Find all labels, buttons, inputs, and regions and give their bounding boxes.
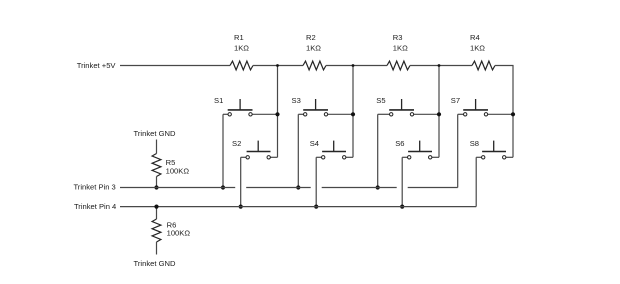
resistor R6 (152, 219, 161, 242)
junction R6 on Pin 4 rail (154, 205, 158, 209)
wire +5V rail segment 4 (410, 65, 472, 67)
svg-text:S3: S3 (292, 96, 301, 105)
junction top rail column 2 (352, 64, 355, 67)
wire +5V rail segment 2 (253, 65, 303, 67)
svg-text:100KΩ: 100KΩ (166, 167, 190, 176)
wire Pin 3 rail segment 2 (246, 187, 311, 189)
junction S3 lead on Pin 3 rail (296, 185, 300, 189)
wire column 1 vertical (277, 66, 279, 158)
junction S2 lead on Pin 4 rail (239, 205, 243, 209)
svg-text:R3: R3 (393, 33, 403, 42)
switch S5 (376, 96, 439, 116)
svg-text:R4: R4 (470, 33, 480, 42)
junction top rail column 1 (276, 64, 279, 67)
svg-text:Trinket +5V: Trinket +5V (77, 61, 117, 70)
svg-text:Trinket GND: Trinket GND (134, 129, 176, 138)
resistor R5 (152, 154, 161, 177)
svg-text:S2: S2 (232, 139, 241, 148)
svg-text:S4: S4 (310, 139, 319, 148)
wire +5V rail segment 5 (495, 65, 514, 67)
svg-text:R1: R1 (234, 33, 244, 42)
svg-text:S5: S5 (376, 96, 385, 105)
wire S7 left lead down to Pin 3 (457, 114, 459, 187)
wire Pin 3 rail segment 3 (322, 187, 397, 189)
wire column 4 vertical (512, 66, 514, 158)
wire Pin 3 rail segment 4 (408, 187, 458, 189)
svg-text:1KΩ: 1KΩ (306, 43, 321, 52)
junction S1 right to column 1 (275, 112, 279, 116)
wire S5 left lead down to Pin 3 (377, 114, 379, 187)
wire S1 left lead down to Pin 3 (222, 114, 224, 187)
wire S8 left lead down to Pin 4 (475, 157, 477, 206)
wire +5V rail segment 1 (120, 65, 230, 67)
wire S3 left lead down to Pin 3 (297, 114, 299, 187)
resistor R3 (387, 61, 410, 70)
svg-text:S8: S8 (470, 139, 479, 148)
wire Pin 4 rail (120, 206, 476, 208)
junction S4 lead on Pin 4 rail (314, 205, 318, 209)
svg-text:Trinket Pin 3: Trinket Pin 3 (73, 183, 115, 192)
svg-text:S6: S6 (395, 139, 404, 148)
junction top rail column 3 (438, 64, 441, 67)
wire column 3 vertical (438, 66, 440, 158)
resistor R1 (230, 61, 253, 70)
wire +5V rail segment 3 (326, 65, 387, 67)
switch S6 (395, 139, 439, 159)
wire column 2 vertical (352, 66, 354, 158)
wire GND to R5 (156, 140, 158, 154)
svg-text:S1: S1 (214, 96, 223, 105)
svg-text:S7: S7 (451, 96, 460, 105)
wire Pin 4 to R6 (156, 207, 158, 219)
svg-text:Trinket GND: Trinket GND (134, 259, 176, 268)
junction S1 lead on Pin 3 rail (221, 185, 225, 189)
wire R5 to Pin 3 rail (156, 177, 158, 188)
wire S6 left lead down to Pin 4 (401, 157, 403, 206)
svg-text:Trinket Pin 4: Trinket Pin 4 (74, 202, 116, 211)
wire Pin 3 rail segment 1 (120, 187, 235, 189)
switch S1 (214, 96, 278, 116)
svg-text:100KΩ: 100KΩ (167, 229, 191, 238)
svg-text:1KΩ: 1KΩ (234, 43, 249, 52)
junction S6 lead on Pin 4 rail (400, 205, 404, 209)
junction S3 right to column 2 (351, 112, 355, 116)
junction S5 right to column 3 (437, 112, 441, 116)
junction R5 on Pin 3 rail (154, 185, 158, 189)
switch S7 (451, 96, 513, 116)
svg-text:1KΩ: 1KΩ (393, 43, 408, 52)
switch S2 (232, 139, 278, 159)
resistor R4 (472, 61, 495, 70)
wire R6 to GND (156, 242, 158, 255)
switch S3 (292, 96, 354, 116)
resistor R2 (303, 61, 326, 70)
svg-text:1KΩ: 1KΩ (470, 43, 485, 52)
junction S5 lead on Pin 3 rail (376, 185, 380, 189)
wire S2 left lead down to Pin 4 (240, 157, 242, 206)
wire S4 left lead down to Pin 4 (315, 157, 317, 206)
switch S8 (470, 139, 513, 159)
svg-text:R2: R2 (306, 33, 316, 42)
junction S7 right to column 4 (511, 112, 515, 116)
switch S4 (310, 139, 353, 159)
